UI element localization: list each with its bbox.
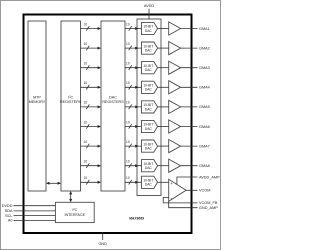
svg-text:DAC: DAC (145, 147, 153, 151)
svg-text:MEMORY: MEMORY (29, 100, 46, 104)
svg-text:INTERFACE: INTERFACE (64, 213, 85, 217)
svg-text:10: 10 (126, 176, 130, 180)
svg-text:10: 10 (84, 140, 88, 144)
svg-text:GMA6: GMA6 (199, 125, 210, 129)
svg-text:GMA2: GMA2 (199, 46, 210, 50)
svg-text:DAC: DAC (145, 29, 153, 33)
svg-text:MAX9669: MAX9669 (129, 217, 144, 221)
svg-text:DAC: DAC (145, 88, 153, 92)
svg-text:REGISTERS: REGISTERS (102, 100, 124, 104)
svg-text:DAC: DAC (145, 49, 153, 53)
svg-text:MTP: MTP (33, 95, 41, 99)
svg-text:10: 10 (126, 160, 130, 164)
svg-text:GND_AMP: GND_AMP (199, 206, 218, 210)
svg-text:10: 10 (84, 42, 88, 46)
svg-text:10: 10 (84, 160, 88, 164)
svg-text:GND: GND (98, 242, 107, 246)
svg-text:I²C: I²C (68, 95, 73, 99)
svg-text:A0: A0 (8, 219, 13, 223)
svg-text:DAC: DAC (109, 95, 117, 99)
svg-text:10: 10 (84, 101, 88, 105)
svg-text:+: + (170, 181, 173, 186)
svg-text:10: 10 (126, 101, 130, 105)
svg-text:GMA8: GMA8 (199, 164, 210, 168)
svg-text:10: 10 (84, 22, 88, 26)
svg-text:REGISTERS: REGISTERS (60, 100, 82, 104)
svg-text:GMA4: GMA4 (199, 86, 210, 90)
svg-text:I²C: I²C (72, 208, 77, 212)
svg-text:SCL: SCL (5, 214, 12, 218)
svg-text:10: 10 (126, 42, 130, 46)
svg-text:SDA: SDA (5, 209, 13, 213)
svg-text:10: 10 (126, 140, 130, 144)
svg-text:AVDD_AMP: AVDD_AMP (199, 175, 220, 179)
svg-text:DAC: DAC (145, 107, 153, 111)
svg-text:DAC: DAC (145, 166, 153, 170)
svg-text:AVDD: AVDD (144, 4, 155, 8)
svg-text:10: 10 (126, 22, 130, 26)
svg-text:10: 10 (84, 176, 88, 180)
svg-text:10: 10 (84, 120, 88, 124)
svg-text:GMA1: GMA1 (199, 27, 210, 31)
svg-text:10: 10 (84, 62, 88, 66)
svg-text:DAC: DAC (145, 127, 153, 131)
svg-text:DAC: DAC (145, 68, 153, 72)
svg-text:GMA7: GMA7 (199, 144, 210, 148)
svg-text:GMA5: GMA5 (199, 105, 210, 109)
svg-text:10: 10 (84, 81, 88, 85)
svg-text:VCOM_FB: VCOM_FB (199, 201, 218, 205)
svg-text:VCOM: VCOM (199, 189, 210, 193)
svg-text:10: 10 (126, 120, 130, 124)
svg-text:GMA3: GMA3 (199, 66, 210, 70)
svg-text:10: 10 (126, 62, 130, 66)
svg-text:DVDD: DVDD (2, 204, 13, 208)
svg-text:DAC: DAC (145, 183, 153, 187)
svg-text:10: 10 (126, 81, 130, 85)
